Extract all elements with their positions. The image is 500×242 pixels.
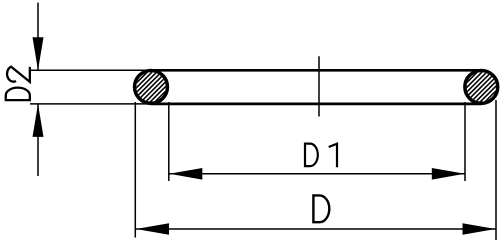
wire: D dimension line (136, 228, 496, 230)
node: D2 arrow up (33, 104, 44, 137)
wire: D2 dimension line upper segment (37, 3, 39, 71)
wire: D2 extension line bottom (30, 103, 152, 105)
node: D1 arrow right (432, 168, 465, 180)
label D2 (6, 67, 30, 100)
node: D1 arrow left (169, 168, 202, 180)
wire: D1 right extension line (464, 102, 466, 181)
label D (313, 195, 329, 222)
node: D2 arrow down (33, 37, 44, 70)
wire: D right extension line (495, 100, 497, 240)
node: O-ring bottom outline (151, 103, 481, 106)
wire: D1 dimension line (169, 173, 465, 175)
wire: D1 left extension line (168, 102, 170, 181)
node: right cross-section circle (443, 68, 500, 106)
wire: D2 dimension line lower segment (37, 104, 39, 176)
node: vertical centerline (318, 56, 320, 116)
wire: D left extension line (134, 102, 136, 238)
node: D arrow left (136, 223, 169, 235)
node: O-ring top outline (151, 69, 481, 72)
node: D arrow right (463, 223, 496, 235)
label D1 (305, 144, 337, 168)
wire: D2 extension line top (30, 69, 152, 71)
node: left cross-section circle (113, 68, 189, 106)
